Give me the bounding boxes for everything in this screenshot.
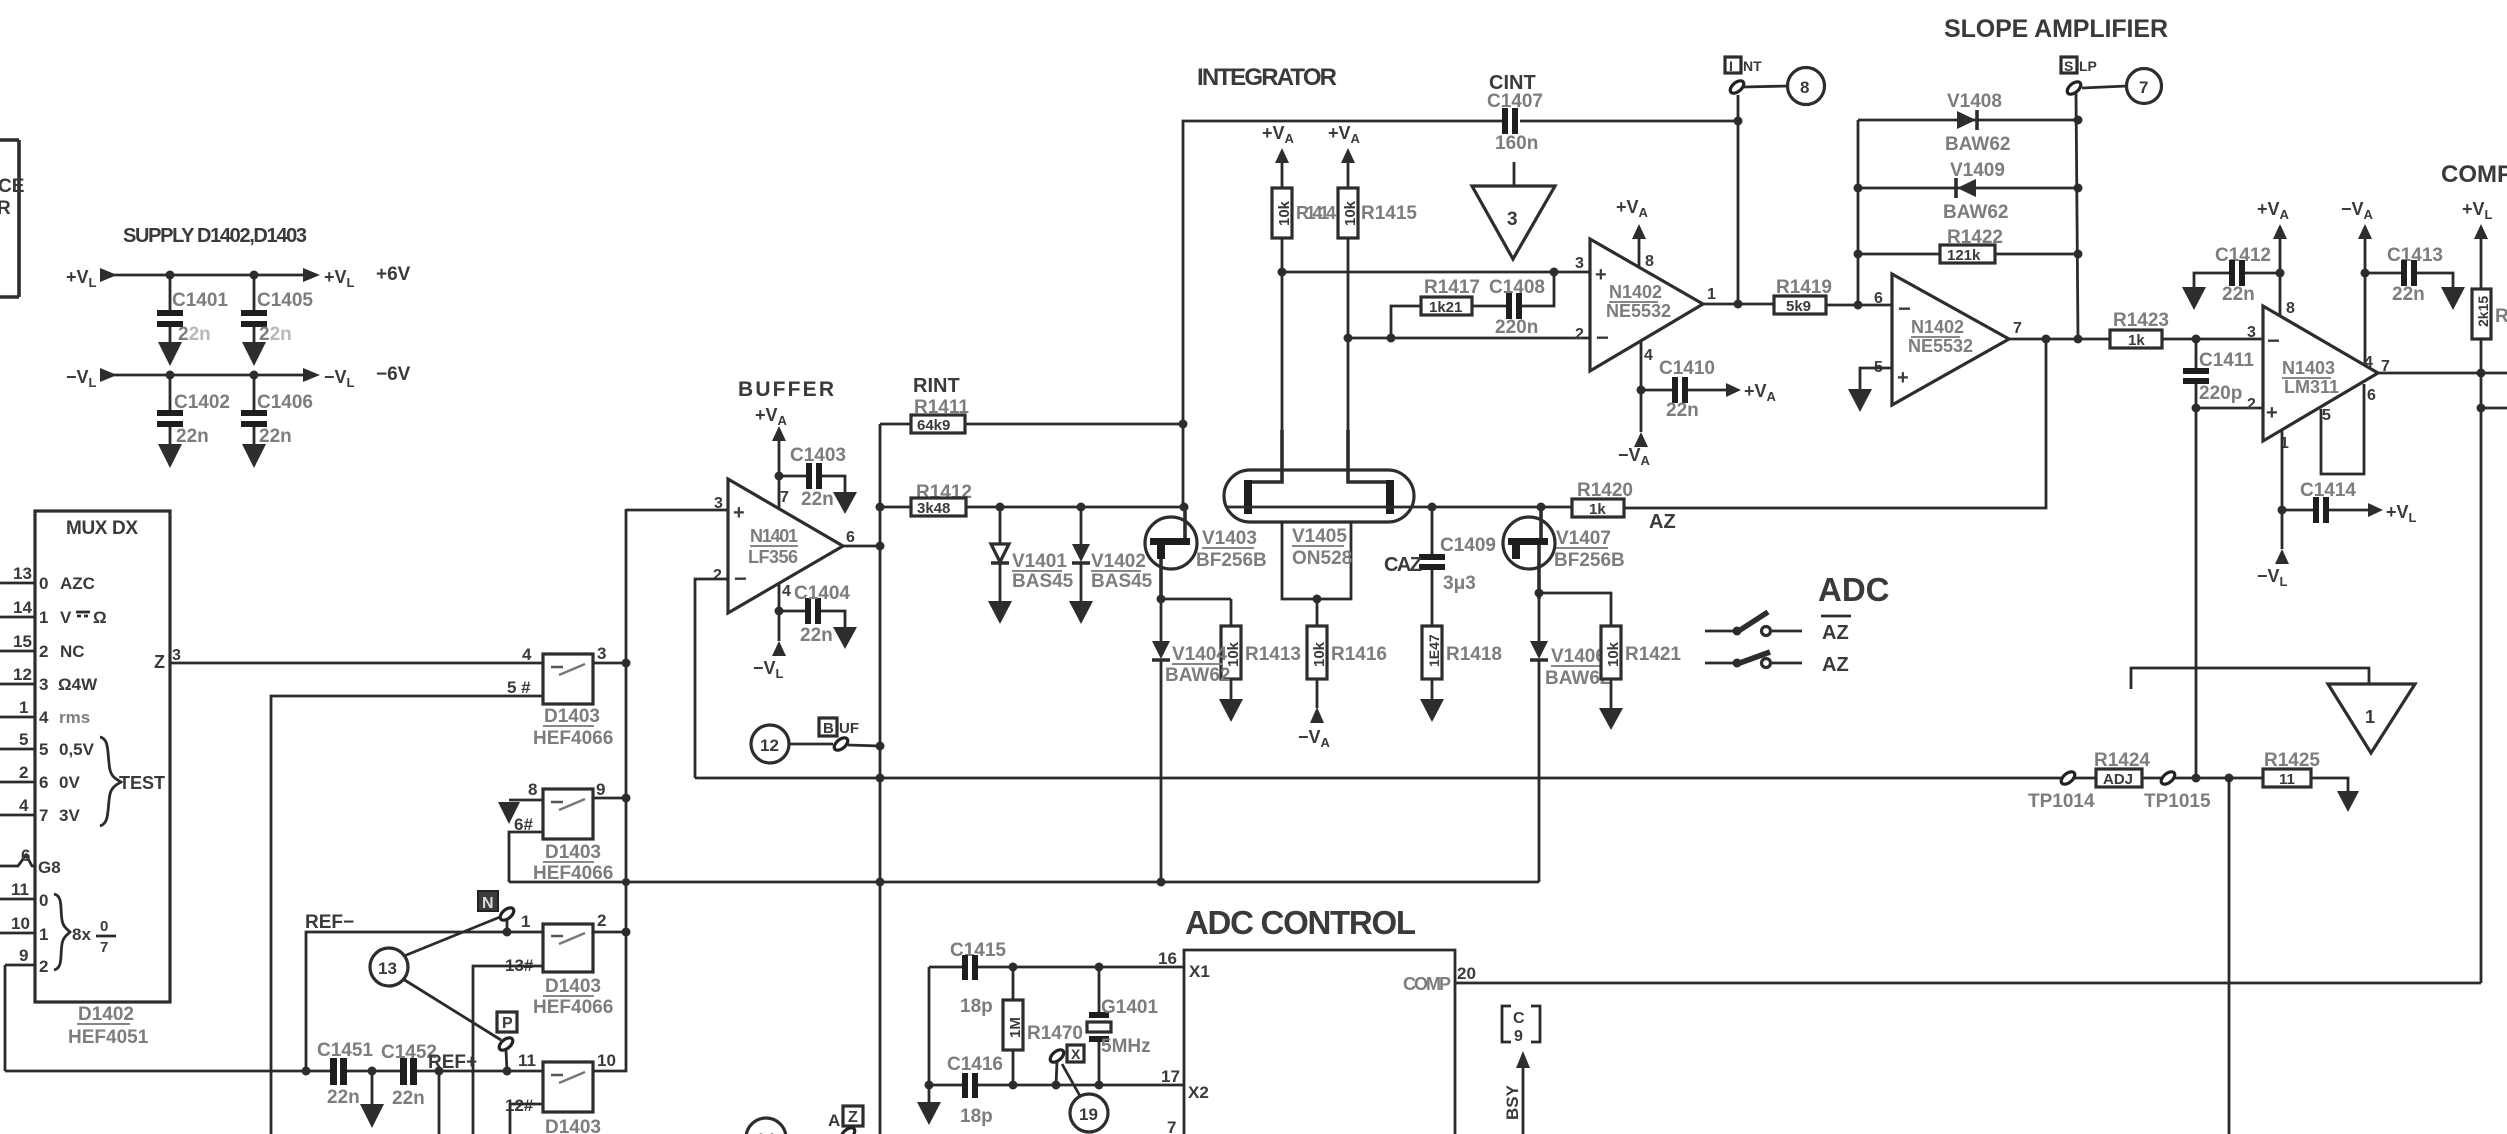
svg-text:5: 5: [19, 730, 28, 749]
pin 1 V-ohm label: [39, 608, 107, 627]
svg-text:INTEGRATOR: INTEGRATOR: [1197, 64, 1337, 91]
svg-text:AZ: AZ: [1822, 622, 1849, 644]
svg-text:TP1015: TP1015: [2144, 791, 2211, 812]
wire buffer output vertical: [879, 424, 882, 1134]
switch AZbar: [1705, 612, 1851, 644]
node X2 corner: [925, 1081, 934, 1090]
connector AZ oval clipped: [839, 1125, 857, 1134]
svg-text:R1423: R1423: [2113, 310, 2169, 331]
comparator N1403: [2247, 300, 2390, 452]
svg-text:18p: 18p: [960, 996, 993, 1017]
svg-text:22n: 22n: [176, 426, 209, 447]
svg-text:V1409: V1409: [1950, 160, 2005, 181]
capacitor C1403: [779, 445, 846, 510]
resistor 2k15: [2472, 289, 2507, 339]
svg-text:1E47: 1E47: [1426, 634, 1442, 667]
svg-text:COMPAR: COMPAR: [2441, 161, 2507, 188]
svg-text:6: 6: [1874, 290, 1883, 307]
svg-text:7: 7: [100, 939, 108, 956]
resistor R1470: [1003, 967, 1083, 1085]
wire op2 pin5 to ground: [1860, 368, 1892, 389]
svg-text:10k: 10k: [1276, 200, 1293, 226]
node switch a output: [622, 659, 631, 668]
8x 0/7 label: [72, 918, 116, 956]
svg-text:2: 2: [39, 957, 48, 976]
svg-text:C1406: C1406: [257, 392, 313, 413]
svg-text:CAZ: CAZ: [1384, 554, 1422, 576]
node R1411 to CINT vertical: [1179, 420, 1188, 429]
wire long analog rail y882: [509, 881, 1539, 884]
ground under X loop: [917, 1085, 941, 1125]
wire switch b input to ground: [509, 799, 543, 802]
node FET V1403 drain / CINT vertical: [1180, 503, 1189, 512]
node V1407 source: [1535, 589, 1544, 598]
svg-text:3: 3: [597, 644, 606, 663]
svg-text:22n: 22n: [2222, 284, 2255, 305]
svg-text:LF356: LF356: [748, 547, 798, 567]
pin 14 stub: [0, 598, 35, 617]
diode V1402: [1072, 507, 1153, 601]
wire pin4: [778, 584, 781, 641]
svg-text:9: 9: [596, 780, 605, 799]
svg-text:BF256B: BF256B: [1196, 550, 1267, 571]
wire COMP to right loop: [1455, 982, 2481, 985]
COMP pin 20: [1403, 964, 1476, 994]
wire -VL rail: [110, 374, 303, 377]
connector SLP oval: [2065, 79, 2083, 96]
svg-text:N: N: [482, 895, 494, 912]
node analog rail tap: [876, 878, 885, 887]
svg-text:3: 3: [39, 675, 48, 694]
svg-text:BSY: BSY: [1503, 1084, 1522, 1120]
resistor R1424 ADJ: [2094, 750, 2150, 788]
wire V1408 row: [1858, 119, 2078, 122]
svg-text:4: 4: [522, 645, 532, 664]
svg-text:220n: 220n: [1495, 317, 1538, 338]
connector INT: [1725, 57, 1762, 74]
+VA pin8 of op1: [1616, 197, 1649, 268]
svg-text:TP1014: TP1014: [2028, 791, 2095, 812]
svg-text:ADC: ADC: [1818, 571, 1890, 608]
BSY arrow: [1503, 1051, 1530, 1134]
svg-text:NE5532: NE5532: [1908, 336, 1973, 356]
svg-text:1: 1: [19, 698, 28, 717]
svg-text:16: 16: [1158, 949, 1177, 968]
svg-text:BAW62: BAW62: [1945, 134, 2010, 155]
capacitor C1412: [2194, 245, 2280, 305]
off-page triangle 3: [1472, 162, 1555, 259]
node switch c output: [622, 928, 631, 937]
resistor R1422: [1858, 227, 2078, 264]
wire comparator pins 5-6 strap: [2321, 384, 2364, 474]
wire slope feedback left vertical: [1857, 120, 1860, 305]
svg-text:D1403: D1403: [544, 706, 600, 727]
node switch column joins Z-column verticals: [622, 878, 630, 886]
+VA over R1414: [1262, 123, 1295, 188]
svg-text:SUPPLY D1402,D1403: SUPPLY D1402,D1403: [123, 225, 307, 247]
wire INT vertical: [1737, 95, 1740, 304]
wire SLP oval to circle7: [2082, 86, 2127, 88]
resistor R1415: [1338, 188, 1417, 238]
wire switch b output: [593, 797, 626, 800]
transistor V1407: [1503, 511, 1625, 599]
connector BUF oval: [832, 735, 850, 752]
ground under C1405: [242, 342, 266, 366]
svg-text:11: 11: [2279, 771, 2295, 788]
op-amp N1401: [713, 479, 855, 613]
svg-text:+6V: +6V: [376, 264, 411, 285]
svg-text:7: 7: [780, 489, 789, 506]
svg-text:9: 9: [1514, 1028, 1523, 1045]
svg-text:C1404: C1404: [794, 583, 850, 604]
svg-text:X1: X1: [1189, 962, 1210, 981]
switch D1403b box: [514, 780, 605, 839]
TEST brace: [100, 737, 121, 826]
svg-text:1k21: 1k21: [1429, 299, 1462, 316]
svg-text:C1402: C1402: [174, 392, 230, 413]
IC ADC control box: [1184, 950, 1455, 1134]
ground under C1404: [833, 627, 857, 649]
svg-text:2: 2: [713, 567, 722, 584]
svg-text:0: 0: [39, 574, 48, 593]
node V1405 substrate: [1313, 595, 1322, 604]
capacitor C1405: [241, 275, 313, 345]
+VL rail arrow right: [303, 268, 320, 282]
-VL supply of buffer: [753, 641, 786, 681]
svg-text:10: 10: [597, 1051, 616, 1070]
node R1470 top: [1009, 963, 1018, 972]
node P joins rail: [503, 1067, 512, 1076]
svg-text:I: I: [1729, 58, 1733, 74]
svg-text:160n: 160n: [1495, 133, 1538, 154]
diode V1404: [1152, 599, 1230, 882]
off-page triangle 1: [2131, 668, 2415, 753]
svg-text:N1401: N1401: [750, 526, 798, 546]
svg-text:3: 3: [714, 495, 723, 512]
ground at switch b input: [498, 802, 520, 824]
pin 7 3V label: [39, 806, 80, 825]
switch D1403d box: [505, 1051, 616, 1115]
svg-text:20: 20: [1457, 964, 1476, 983]
node pin7: [775, 472, 784, 481]
svg-text:C1415: C1415: [950, 940, 1006, 961]
svg-text:UF: UF: [839, 720, 859, 737]
pin 6 0V label: [39, 773, 80, 792]
pin 15 stub: [0, 632, 35, 651]
svg-text:64k9: 64k9: [917, 417, 950, 434]
svg-text:C1451: C1451: [317, 1040, 373, 1061]
svg-text:−: −: [2267, 328, 2280, 353]
wire switch a output: [593, 662, 626, 665]
node R1425 branch down: [2225, 774, 2234, 783]
svg-text:S: S: [2064, 58, 2073, 74]
svg-text:V1402: V1402: [1091, 551, 1146, 572]
svg-text:COMP: COMP: [1403, 974, 1451, 994]
node V1401 tap: [996, 503, 1005, 512]
resistor R1411: [880, 397, 1183, 434]
pin 10 stub: [0, 914, 35, 933]
svg-text:22n: 22n: [392, 1088, 425, 1109]
svg-text:3: 3: [1575, 255, 1584, 272]
pin 4 stub: [0, 796, 35, 815]
diode V1406: [1530, 593, 1610, 882]
svg-text:LM311: LM311: [2284, 377, 2339, 397]
connector N box: [478, 891, 498, 912]
svg-text:1: 1: [39, 925, 48, 944]
svg-text:1: 1: [2365, 707, 2375, 727]
capacitor C1410: [1641, 358, 1726, 421]
svg-text:5MHz: 5MHz: [1101, 1036, 1151, 1057]
node REF+ stub: [435, 1067, 444, 1076]
ground under V1401: [988, 601, 1012, 624]
svg-text:C1403: C1403: [790, 445, 846, 466]
node SLP branch: [2074, 335, 2083, 344]
wire SLP vertical: [2076, 93, 2078, 339]
svg-text:11: 11: [11, 880, 29, 899]
wire REF- to switch c: [306, 932, 543, 1071]
svg-text:BAS45: BAS45: [1091, 571, 1153, 592]
svg-text:5: 5: [2322, 407, 2331, 424]
svg-text:LP: LP: [2079, 58, 2097, 74]
wire P oval to REF+ wire: [506, 1050, 507, 1071]
wire pin9 to bottom rail: [4, 965, 7, 1071]
capacitor C1401: [157, 275, 228, 345]
resistor R1413: [1221, 599, 1301, 699]
wire X1: [929, 966, 1184, 969]
wire bottom REF rail: [5, 1070, 543, 1073]
D1403b label: [533, 842, 613, 884]
pin 4 rms label: [39, 708, 90, 727]
node pin4: [1637, 386, 1646, 395]
pin 2 stub: [0, 763, 35, 782]
svg-text:7: 7: [1167, 1118, 1176, 1134]
svg-text:R1417: R1417: [1424, 277, 1480, 298]
svg-text:SLOPE AMPLIFIER: SLOPE AMPLIFIER: [1944, 15, 2168, 43]
svg-text:R: R: [0, 198, 11, 219]
node C1408 branch on pin3 wire: [1550, 268, 1559, 277]
svg-text:R1416: R1416: [1331, 644, 1387, 665]
svg-text:14: 14: [13, 598, 32, 617]
svg-text:AZ: AZ: [1822, 654, 1849, 676]
svg-text:22n: 22n: [2392, 284, 2425, 305]
svg-text:12: 12: [13, 665, 32, 684]
ground at op2 pin5: [1848, 389, 1872, 412]
svg-text:2: 2: [39, 642, 48, 661]
+VA supply comparator: [2257, 199, 2290, 316]
resistor R1420: [1572, 480, 1633, 518]
+VL supply comparator: [2462, 199, 2493, 289]
svg-text:C1416: C1416: [947, 1054, 1003, 1075]
pin 3 ohm4W label: [39, 675, 98, 694]
svg-text:3: 3: [172, 647, 181, 664]
ground under C1403: [833, 492, 857, 514]
wire CINT top rail: [1183, 121, 1738, 507]
resistor R1418: [1422, 626, 1502, 699]
wire V1407 source to R1421: [1539, 593, 1611, 626]
op-amp N1402 first: [1575, 239, 1716, 371]
svg-text:AZ: AZ: [1649, 511, 1676, 533]
node V1409 left: [1854, 184, 1863, 193]
wire op1 output: [1703, 303, 1774, 306]
capacitor C1409 CAZ: [1384, 507, 1496, 626]
capacitor C1415: [950, 940, 1006, 1017]
svg-text:10: 10: [11, 914, 30, 933]
node on -VL rail: [166, 371, 175, 380]
wire buffer output: [843, 545, 880, 548]
wire V1409 row: [1858, 187, 2078, 190]
svg-text:R1418: R1418: [1446, 644, 1502, 665]
-VA under R1416: [1298, 707, 1331, 750]
pin 17 X2 labels: [1161, 1067, 1209, 1102]
svg-text:2: 2: [1575, 326, 1584, 343]
svg-text:4: 4: [1644, 347, 1653, 364]
resistor R1417: [1391, 277, 1506, 338]
node N tap on REF- wire: [503, 928, 512, 937]
connector SLP: [2061, 57, 2097, 74]
D1403a label: [533, 706, 613, 749]
svg-text:Z: Z: [848, 1109, 858, 1126]
svg-text:22n: 22n: [1666, 400, 1699, 421]
-VL rail arrow left: [100, 368, 117, 382]
svg-text:C1405: C1405: [257, 290, 313, 311]
node C1413 joins -VA line: [2361, 269, 2370, 278]
svg-text:22n: 22n: [800, 625, 833, 646]
svg-text:6: 6: [2367, 387, 2376, 404]
svg-text:6: 6: [21, 846, 30, 865]
diode V1401: [991, 507, 1074, 601]
svg-text:15: 15: [13, 632, 32, 651]
connector P oval: [497, 1035, 515, 1052]
svg-text:Ω4W: Ω4W: [58, 675, 98, 694]
connector C9 bracket: [1502, 1006, 1540, 1045]
+VA over R1415: [1328, 123, 1361, 188]
svg-text:C1411: C1411: [2199, 350, 2254, 371]
svg-text:6: 6: [846, 529, 855, 546]
IC D1402 MUX box: [35, 511, 170, 1002]
+VL arrow right of C1414: [2368, 502, 2417, 525]
node R1415 on pin2 wire: [1344, 334, 1353, 343]
capacitor C1414: [2282, 480, 2368, 523]
svg-text:6: 6: [39, 773, 48, 792]
D1403c label: [533, 976, 613, 1018]
-VL under comparator: [2257, 549, 2289, 589]
node R1414 on pin3 wire: [1278, 268, 1287, 277]
wire V1403 source node: [1161, 598, 1231, 601]
wire op1 pin4: [1640, 340, 1643, 432]
svg-text:7: 7: [2139, 78, 2148, 97]
svg-text:220p: 220p: [2199, 383, 2242, 404]
diode V1409: [1943, 160, 2008, 223]
svg-text:P: P: [502, 1015, 513, 1032]
svg-text:8: 8: [1645, 253, 1654, 270]
svg-text:7: 7: [2013, 320, 2022, 337]
node R1412 tap: [876, 503, 885, 512]
capacitor C1413: [2365, 245, 2453, 305]
wire X oval to circle19: [1062, 1064, 1080, 1096]
svg-text:5k9: 5k9: [1786, 298, 1811, 315]
connector X oval: [1048, 1047, 1066, 1064]
circled 8: [1788, 68, 1825, 105]
node C1411 line joins TP wire: [2192, 774, 2201, 783]
capacitor C1406: [241, 375, 313, 447]
crystal G1401: [1087, 967, 1158, 1085]
node V1407 drain: [1537, 503, 1546, 512]
svg-text:−: −: [1898, 296, 1911, 321]
wire +VL rail: [110, 274, 303, 277]
svg-text:V1404: V1404: [1172, 644, 1227, 665]
svg-text:+: +: [1595, 264, 1607, 286]
svg-text:4: 4: [19, 796, 29, 815]
capacitor C1404: [779, 583, 850, 646]
pin 12 stub: [0, 665, 35, 684]
svg-text:4: 4: [39, 708, 49, 727]
svg-text:G8: G8: [38, 858, 61, 877]
node C1411 to comparator pin2: [2192, 404, 2201, 413]
wire R1415 down to V1405 gate: [1347, 238, 1350, 470]
node C1412 joins +VA line: [2276, 269, 2285, 278]
switch D1403c box: [505, 911, 606, 975]
wire AZ line to slope output: [1624, 339, 2046, 508]
wire 12# control: [510, 1104, 543, 1134]
resistor R1425: [2263, 750, 2320, 788]
wire comparator output: [2378, 372, 2507, 375]
wire 13# control: [473, 966, 543, 1134]
partial box top-left (REFERENCE block edge): [0, 140, 24, 297]
diode V1408: [1945, 91, 2010, 155]
svg-text:22n: 22n: [801, 489, 834, 510]
svg-text:1: 1: [521, 912, 530, 931]
node BUF joins vertical: [876, 742, 885, 751]
svg-text:R1414: R1414: [1296, 203, 1336, 223]
pin 0 AZC label: [39, 574, 95, 593]
connector BUF label: [819, 718, 859, 737]
svg-text:0V: 0V: [59, 773, 80, 792]
ground under V1402: [1069, 601, 1093, 624]
svg-text:4: 4: [782, 583, 791, 600]
node ground stem: [368, 1067, 377, 1076]
capacitor C1416: [947, 1054, 1003, 1127]
wire switch c output: [593, 931, 626, 934]
node X tap: [1052, 1081, 1061, 1090]
wire buffer pin2: [695, 579, 728, 778]
+VL rail arrow left: [100, 268, 117, 282]
node R1417 branch on pin2 wire: [1387, 334, 1396, 343]
svg-text:0,5V: 0,5V: [59, 740, 95, 759]
wire REF+ down: [438, 1071, 441, 1134]
svg-text:R1413: R1413: [1245, 644, 1301, 665]
node pin1 C1414: [2278, 506, 2287, 515]
svg-text:BAW62: BAW62: [1943, 202, 2008, 223]
svg-text:8: 8: [2286, 300, 2295, 317]
svg-text:BF256B: BF256B: [1554, 550, 1625, 571]
svg-text:V1407: V1407: [1556, 528, 1611, 549]
wire BUF oval to vertical: [848, 745, 880, 746]
node V1402 tap: [1077, 503, 1086, 512]
svg-text:NT: NT: [1743, 58, 1762, 74]
svg-text:1k: 1k: [2128, 332, 2145, 349]
switch AZ: [1705, 652, 1849, 676]
svg-text:R1421: R1421: [1625, 644, 1681, 665]
wire FET row to CAZ: [1412, 506, 1572, 509]
wire down from TP node: [2228, 778, 2231, 1134]
resistor R1421: [1601, 626, 1681, 708]
svg-text:D1403: D1403: [545, 842, 601, 863]
svg-text:X2: X2: [1188, 1083, 1209, 1102]
ground right of C1413: [2441, 287, 2465, 310]
circled 7: [2127, 69, 2162, 104]
capacitor C1402: [157, 375, 230, 447]
svg-text:HEF4066: HEF4066: [533, 997, 613, 1018]
